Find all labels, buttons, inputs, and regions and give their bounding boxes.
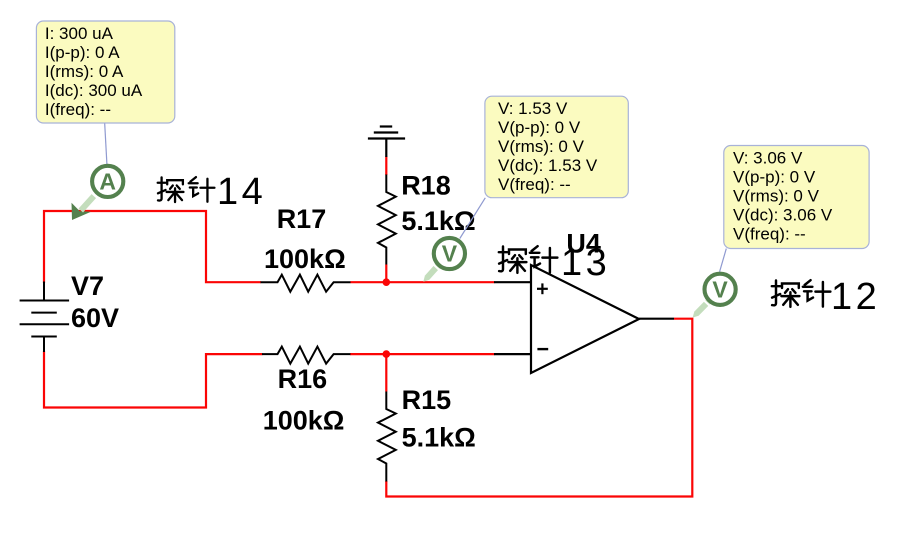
svg-text:13: 13	[561, 242, 610, 284]
resistor R16	[262, 347, 350, 364]
svg-text:V(freq): --: V(freq): --	[498, 175, 571, 194]
svg-text:A: A	[99, 168, 116, 194]
svg-text:V: V	[442, 241, 458, 267]
svg-text:14: 14	[217, 171, 266, 213]
resistor R17	[261, 275, 351, 292]
junction node A (R17/R18/op-amp +)	[383, 278, 391, 286]
op-amp U4 output stub	[639, 318, 674, 320]
tooltip box probe 13 (voltage)	[485, 96, 628, 198]
svg-text:R18: R18	[401, 170, 451, 200]
svg-text:I: 300 uA: I: 300 uA	[45, 24, 114, 43]
probe arrow band (probe 12)	[693, 299, 712, 318]
pin +	[537, 283, 548, 294]
tooltip box probe 14 (current)	[36, 21, 174, 123]
svg-text:V(freq): --: V(freq): --	[733, 225, 806, 244]
probe stem gap (probe 13)	[433, 264, 440, 270]
svg-text:100kΩ: 100kΩ	[263, 406, 345, 436]
wire: R15 bottom, feedback rail to op-amp output	[386, 319, 692, 497]
resistor R18	[378, 175, 396, 265]
label probe 14 (tan-zhen-14)	[158, 177, 215, 202]
label probe 13	[499, 246, 558, 273]
leader line probe 14	[105, 124, 107, 165]
probe stem gap (probe 12)	[704, 300, 711, 306]
wire: left loop top rail (V7+ to R17 lead)	[44, 211, 261, 283]
probe 12 voltmeter circle	[705, 274, 736, 305]
probe arrowhead (probe 14)	[72, 203, 92, 220]
svg-text:I(freq): --: I(freq): --	[45, 100, 111, 119]
svg-text:V(rms): 0 V: V(rms): 0 V	[733, 187, 820, 206]
wire: ground stub to R18 top	[385, 157, 387, 176]
op-amp U4	[531, 265, 639, 373]
svg-text:V: 3.06 V: V: 3.06 V	[733, 149, 803, 168]
leader line probe 13	[460, 198, 486, 239]
svg-text:5.1kΩ: 5.1kΩ	[402, 423, 476, 453]
pin -	[537, 348, 548, 350]
svg-text:R17: R17	[277, 204, 327, 234]
wire: R16 right lead to op-amp - input	[350, 353, 495, 355]
svg-text:V(p-p): 0 V: V(p-p): 0 V	[498, 118, 581, 137]
probe 13 voltmeter circle	[434, 238, 465, 269]
ground	[368, 127, 405, 158]
svg-text:I(dc): 300 uA: I(dc): 300 uA	[45, 81, 143, 100]
wire: left loop bottom rail (V7- to R16 lead)	[44, 351, 262, 408]
svg-text:12: 12	[831, 276, 880, 318]
wire: junction to R15 top	[385, 354, 387, 391]
svg-text:V: V	[712, 276, 728, 302]
svg-text:100kΩ: 100kΩ	[264, 244, 346, 274]
svg-text:V(dc): 1.53 V: V(dc): 1.53 V	[498, 156, 598, 175]
svg-text:R16: R16	[278, 364, 328, 394]
svg-text:V(dc): 3.06 V: V(dc): 3.06 V	[733, 206, 833, 225]
svg-text:60V: 60V	[71, 303, 119, 333]
probe arrow band (probe 13)	[423, 263, 441, 282]
wire: R18 bottom to junction	[385, 265, 387, 283]
probe 14 ammeter circle	[92, 166, 123, 197]
junction node B (R16/R15/op-amp -)	[383, 350, 391, 358]
op-amp U4 input stub -	[494, 353, 531, 355]
svg-text:I(rms): 0 A: I(rms): 0 A	[45, 62, 124, 81]
battery V7	[20, 282, 70, 353]
op-amp U4 input stub +	[494, 281, 531, 283]
label probe 12	[772, 280, 831, 307]
tooltip box probe 12 (voltage)	[724, 146, 869, 249]
leader line probe 12	[720, 249, 727, 272]
probe arrow band (probe 14)	[81, 196, 94, 210]
svg-text:I(p-p): 0 A: I(p-p): 0 A	[45, 43, 120, 62]
svg-text:V(p-p): 0 V: V(p-p): 0 V	[733, 168, 816, 187]
svg-text:V7: V7	[71, 271, 104, 301]
resistor R15	[378, 392, 396, 482]
probe stem gap (probe 14)	[92, 192, 99, 198]
wire: R17 right lead to op-amp + input	[350, 281, 494, 283]
svg-text:V(rms): 0 V: V(rms): 0 V	[498, 137, 585, 156]
svg-text:V: 1.53 V: V: 1.53 V	[498, 99, 568, 118]
svg-text:R15: R15	[402, 385, 452, 415]
